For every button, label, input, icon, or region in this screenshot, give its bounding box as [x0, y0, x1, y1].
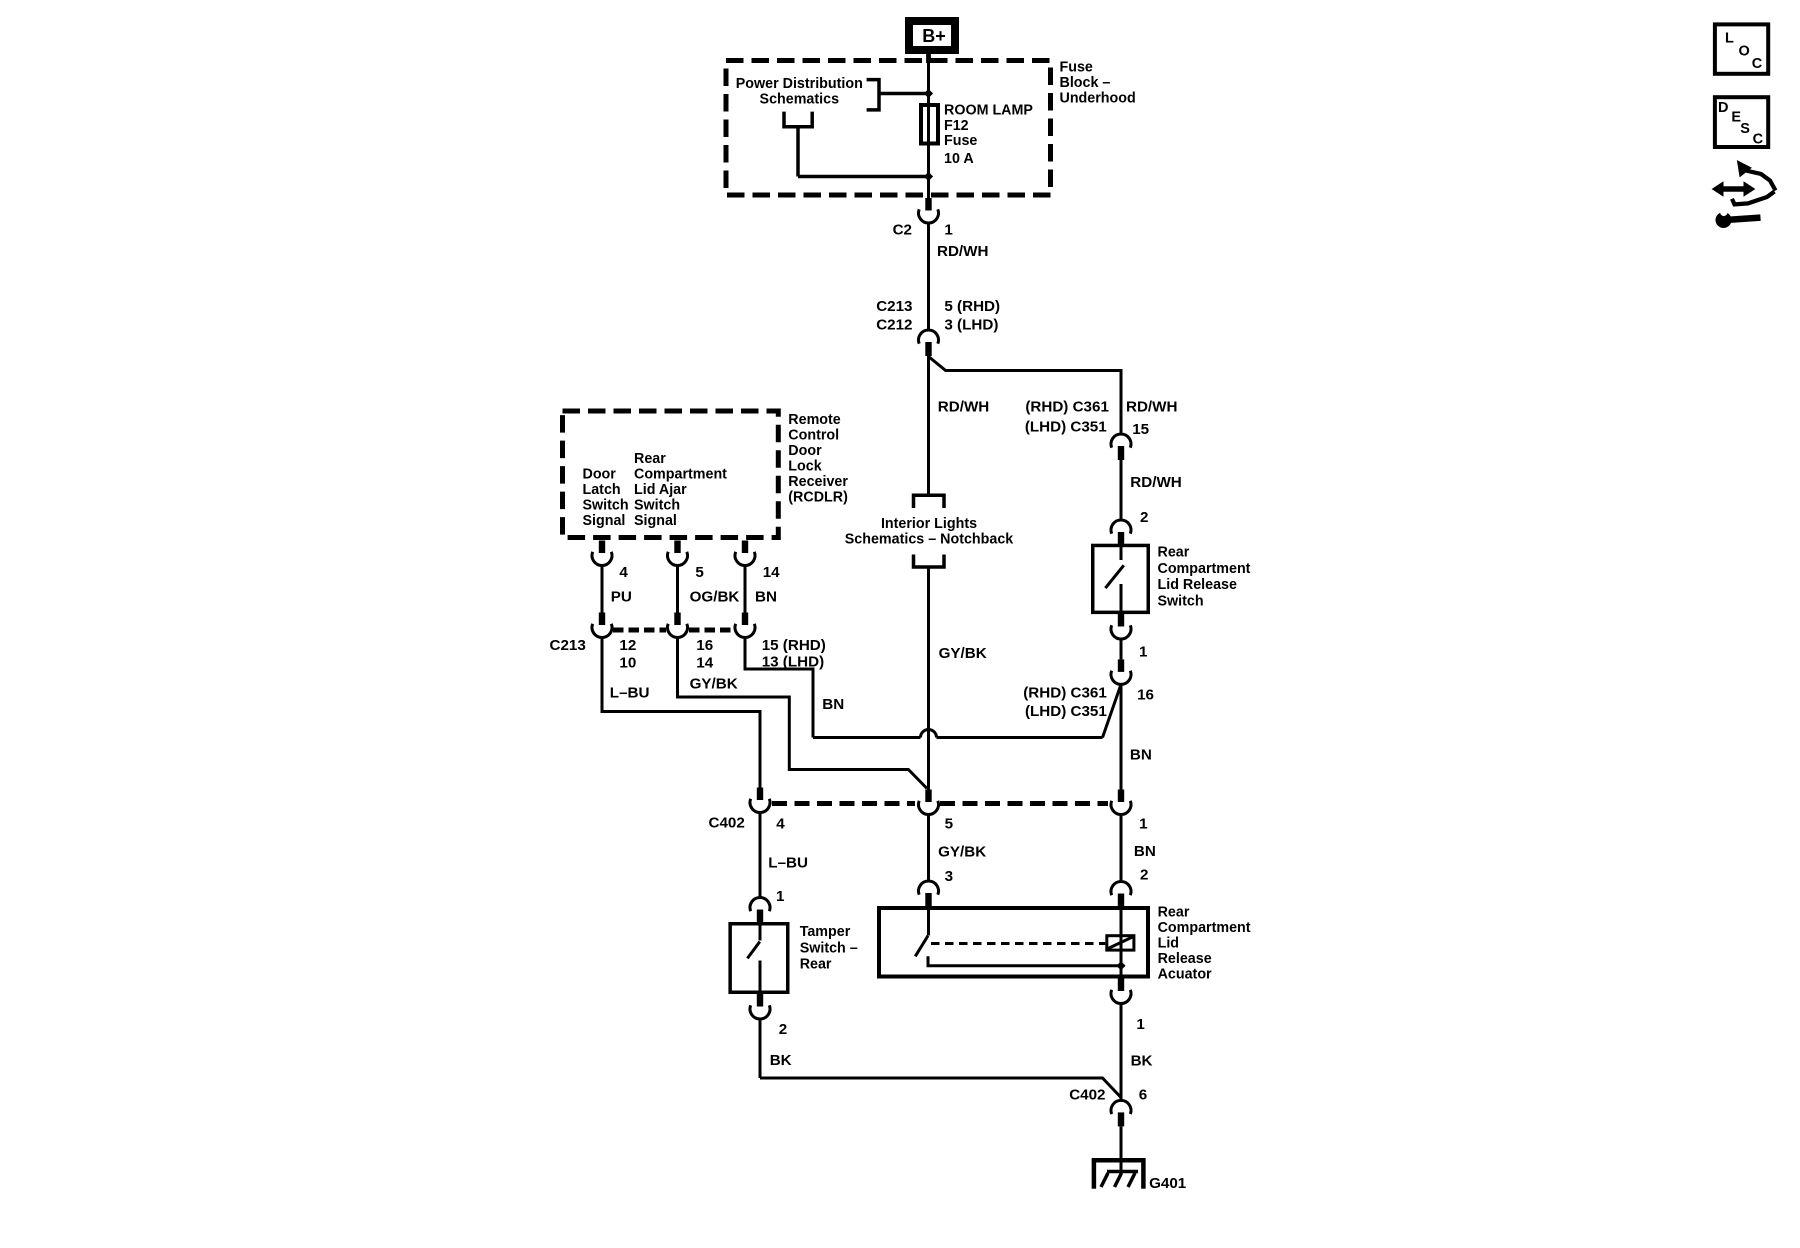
svg-text:L–BU: L–BU	[610, 685, 650, 702]
svg-text:4: 4	[776, 816, 785, 833]
svg-text:Schematics: Schematics	[760, 92, 840, 108]
svg-text:Lid: Lid	[1158, 935, 1179, 951]
svg-text:5: 5	[945, 816, 954, 833]
svg-text:GY/BK: GY/BK	[939, 645, 987, 662]
svg-text:(LHD) C351: (LHD) C351	[1025, 703, 1107, 720]
svg-text:B+: B+	[922, 26, 946, 46]
svg-text:Switch –: Switch –	[800, 940, 858, 956]
svg-text:5: 5	[695, 564, 704, 581]
svg-text:BN: BN	[1134, 843, 1156, 860]
svg-text:C213: C213	[549, 637, 585, 654]
svg-text:Fuse: Fuse	[944, 133, 977, 149]
svg-text:2: 2	[1140, 867, 1148, 884]
svg-text:Latch: Latch	[583, 482, 621, 498]
svg-text:(RCDLR): (RCDLR)	[788, 489, 848, 505]
svg-text:Compartment: Compartment	[1158, 920, 1251, 936]
svg-text:Door: Door	[788, 443, 822, 459]
svg-text:12: 12	[619, 637, 636, 654]
svg-text:4: 4	[619, 564, 628, 581]
svg-text:C402: C402	[1069, 1087, 1105, 1104]
svg-text:Lid Ajar: Lid Ajar	[634, 482, 687, 498]
svg-text:Interior Lights: Interior Lights	[881, 516, 977, 532]
svg-text:Lid Release: Lid Release	[1158, 577, 1238, 593]
svg-text:Rear: Rear	[800, 957, 832, 973]
svg-text:10: 10	[619, 655, 636, 672]
svg-text:Door: Door	[583, 466, 617, 482]
svg-text:Switch: Switch	[634, 497, 680, 513]
svg-text:(RHD) C361: (RHD) C361	[1023, 685, 1107, 702]
svg-text:2: 2	[779, 1021, 787, 1038]
svg-text:GY/BK: GY/BK	[690, 676, 738, 693]
svg-text:Acuator: Acuator	[1158, 966, 1212, 982]
svg-text:2: 2	[1140, 509, 1148, 526]
svg-text:L–BU: L–BU	[768, 855, 808, 872]
svg-text:BN: BN	[755, 589, 777, 606]
svg-text:Rear: Rear	[634, 451, 666, 467]
svg-text:(LHD) C351: (LHD) C351	[1025, 419, 1107, 436]
svg-text:1: 1	[944, 222, 953, 239]
svg-text:ROOM LAMP: ROOM LAMP	[944, 103, 1033, 119]
svg-text:RD/WH: RD/WH	[937, 243, 988, 260]
svg-text:16: 16	[696, 637, 713, 654]
svg-text:Schematics – Notchback: Schematics – Notchback	[845, 532, 1014, 548]
svg-text:Control: Control	[788, 427, 839, 443]
svg-text:RD/WH: RD/WH	[938, 399, 989, 416]
svg-text:Compartment: Compartment	[1158, 561, 1251, 577]
svg-text:C402: C402	[708, 815, 744, 832]
svg-text:10 A: 10 A	[944, 151, 974, 167]
svg-text:Compartment: Compartment	[634, 466, 727, 482]
svg-text:Rear: Rear	[1158, 904, 1190, 920]
svg-text:BN: BN	[822, 696, 844, 713]
svg-text:1: 1	[1139, 644, 1148, 661]
svg-text:16: 16	[1137, 687, 1154, 704]
svg-text:6: 6	[1139, 1087, 1147, 1104]
svg-text:Switch: Switch	[583, 497, 629, 513]
svg-text:C213: C213	[876, 298, 912, 315]
svg-text:F12: F12	[944, 118, 969, 134]
svg-text:BK: BK	[770, 1052, 792, 1069]
svg-text:RD/WH: RD/WH	[1126, 399, 1177, 416]
svg-text:C212: C212	[876, 317, 912, 334]
svg-text:1: 1	[1136, 1016, 1145, 1033]
svg-text:Signal: Signal	[583, 513, 626, 529]
svg-text:Switch: Switch	[1158, 593, 1204, 609]
svg-text:L: L	[1725, 30, 1734, 46]
svg-text:Power Distribution: Power Distribution	[736, 76, 863, 92]
svg-text:14: 14	[696, 655, 713, 672]
svg-text:RD/WH: RD/WH	[1130, 474, 1181, 491]
svg-text:D: D	[1718, 100, 1728, 116]
svg-text:15 (RHD): 15 (RHD)	[762, 637, 826, 654]
svg-text:C2: C2	[893, 222, 912, 239]
svg-text:1: 1	[1139, 816, 1148, 833]
svg-text:BK: BK	[1131, 1053, 1153, 1070]
svg-text:PU: PU	[611, 589, 632, 606]
svg-text:C: C	[1752, 56, 1763, 72]
svg-text:OG/BK: OG/BK	[690, 589, 740, 606]
svg-text:Receiver: Receiver	[788, 474, 848, 490]
svg-text:BN: BN	[1130, 747, 1152, 764]
svg-text:14: 14	[763, 564, 780, 581]
svg-text:Block –: Block –	[1060, 75, 1111, 91]
svg-text:1: 1	[776, 888, 785, 905]
svg-text:Underhood: Underhood	[1060, 91, 1136, 107]
svg-text:Rear: Rear	[1158, 545, 1190, 561]
svg-text:3 (LHD): 3 (LHD)	[944, 317, 998, 334]
svg-text:Remote: Remote	[788, 412, 840, 428]
svg-text:Fuse: Fuse	[1060, 60, 1093, 76]
svg-text:(RHD) C361: (RHD) C361	[1025, 399, 1109, 416]
svg-text:15: 15	[1132, 421, 1149, 438]
svg-text:GY/BK: GY/BK	[938, 844, 986, 861]
svg-text:Release: Release	[1158, 951, 1212, 967]
svg-text:C: C	[1753, 132, 1764, 148]
svg-text:3: 3	[945, 868, 953, 885]
svg-text:Lock: Lock	[788, 458, 821, 474]
svg-text:S: S	[1740, 121, 1750, 137]
svg-text:5 (RHD): 5 (RHD)	[944, 298, 1000, 315]
svg-text:Tamper: Tamper	[800, 924, 851, 940]
svg-text:O: O	[1739, 44, 1750, 60]
svg-text:G401: G401	[1149, 1175, 1187, 1192]
svg-text:Signal: Signal	[634, 513, 677, 529]
